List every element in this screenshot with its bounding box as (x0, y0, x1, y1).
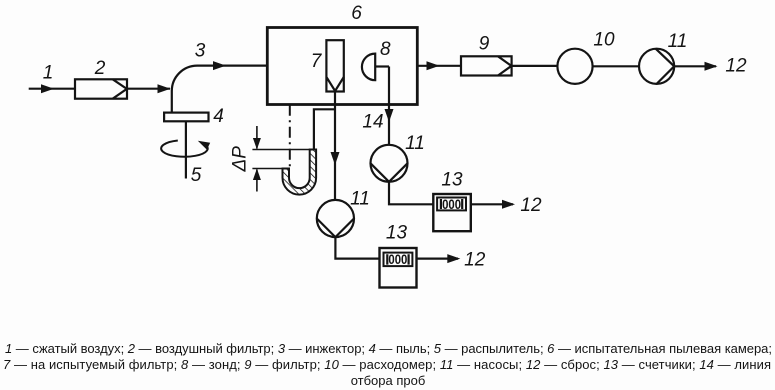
svg-text:1: 1 (43, 63, 54, 84)
arrowhead on line 14 (385, 109, 394, 122)
wire: test filter 7 down to pump (334, 92, 336, 201)
label 12 lower (464, 250, 486, 271)
label 4 (213, 106, 224, 127)
svg-text:отбора проб: отбора проб (351, 373, 426, 388)
pump 11 (top) vanes (656, 49, 674, 84)
sprayer 5 shaft (185, 121, 187, 178)
dP level tick upper (252, 149, 309, 151)
svg-text:1 — сжатый воздух; 2 — воздушн: 1 — сжатый воздух; 2 — воздушный фильтр;… (5, 341, 772, 356)
wire: left pump to counter 13 (335, 237, 379, 259)
svg-text:3: 3 (195, 41, 206, 62)
pump 11 (top) circle (639, 49, 674, 84)
dust plate 4 (164, 113, 208, 122)
filter 9 body (461, 56, 512, 75)
air filter 2 body (75, 79, 127, 98)
svg-text:5: 5 (191, 165, 202, 186)
counter digits upper (442, 197, 461, 212)
label 1 (43, 63, 54, 84)
caption line 2 (3, 357, 771, 372)
wire: chamber outlet to filter 9 (417, 65, 461, 67)
svg-text:10: 10 (593, 30, 615, 51)
label 13 lower (386, 223, 408, 244)
svg-text:11: 11 (350, 189, 370, 210)
flowmeter 10 (557, 49, 592, 84)
wire: flowmeter 10 to pump 11 (593, 65, 639, 67)
svg-text:7: 7 (311, 51, 323, 72)
dP dimension arrow lower (253, 169, 261, 192)
label 11 top (668, 31, 688, 52)
pump 11 (right lower) vanes (371, 163, 408, 182)
svg-text:2: 2 (94, 58, 106, 79)
label 14 (362, 112, 383, 133)
label 13 upper (441, 170, 463, 191)
counter 13 (upper) side bars (441, 199, 462, 209)
probe 8 half-disc (362, 54, 375, 81)
svg-text:13: 13 (386, 223, 408, 244)
wire: filter 2 to injector (127, 88, 170, 90)
U-tube manometer liquid (hatched) (283, 150, 317, 195)
label 11 left lower (350, 189, 370, 210)
wire: right pump to counter 13 upper (389, 182, 433, 205)
arrowhead on filter 7 line (331, 152, 340, 165)
svg-text:11: 11 (405, 133, 425, 154)
dP dimension arrow upper (253, 126, 261, 150)
counter 13 (upper) window (437, 198, 466, 211)
dP level tick lower (252, 168, 282, 170)
svg-text:ΔP: ΔP (230, 146, 251, 173)
dust test chamber 6 (267, 28, 417, 105)
manometer right-arm connection to line 7 (314, 109, 335, 149)
label 12 middle (520, 195, 542, 216)
counter 13 (lower) window (384, 253, 413, 267)
counter 13 (upper) body (433, 194, 471, 231)
caption line 3 (351, 373, 426, 388)
label 11 right lower (405, 133, 425, 154)
injector elbow 3 riser and bend (172, 66, 267, 113)
arrowhead on line 3 into chamber (213, 61, 226, 70)
counter 13 (lower) side bars (387, 254, 408, 264)
svg-text:12: 12 (464, 250, 486, 271)
label 12 top (725, 56, 747, 77)
test filter 7 funnel (326, 77, 343, 91)
svg-text:000: 000 (388, 252, 407, 267)
label dP (230, 146, 251, 173)
wire: pump 11 to discharge 12 (674, 65, 716, 67)
svg-text:8: 8 (380, 39, 391, 60)
label 9 (479, 34, 490, 55)
wire: lower counter to discharge 12 (417, 258, 459, 260)
counter 13 (lower) body (380, 248, 417, 288)
pump 11 (left lower) vanes (317, 219, 354, 238)
label 5 (191, 165, 202, 186)
label 10 (593, 30, 615, 51)
svg-text:7 — на испытуемый фильтр; 8 —: 7 — на испытуемый фильтр; 8 — зонд; 9 — … (3, 357, 771, 372)
test filter 7 body (326, 40, 343, 91)
svg-text:12: 12 (725, 56, 747, 77)
arrowhead discharge 12 (lower) (447, 254, 460, 263)
arrowhead at injector inlet (158, 84, 171, 93)
pump 11 (right lower) circle (371, 145, 408, 182)
air filter 2 chevron (113, 79, 127, 98)
label 8 (380, 39, 391, 60)
svg-text:12: 12 (520, 195, 542, 216)
svg-text:000: 000 (442, 197, 461, 212)
caption line 1 (5, 341, 772, 356)
dashed pressure tap from chamber to manometer (289, 105, 291, 168)
wire: compressed air inlet line 1 (29, 88, 75, 90)
arrowhead on chamber outlet (427, 61, 440, 70)
arrowhead discharge 12 (middle) (502, 200, 515, 209)
sampling line 14 wire (388, 67, 390, 145)
pump 11 (left lower) circle (317, 200, 354, 237)
wire: filter 9 to flowmeter 10 (512, 65, 558, 67)
sprayer 5 rotation arrowhead (198, 141, 210, 150)
filter 9 chevron (498, 56, 511, 75)
arrowhead discharge 12 (top) (705, 62, 718, 71)
counter digits lower (388, 252, 407, 267)
arrowhead on inlet line 1 (41, 84, 54, 93)
sprayer 5 rotation arc (161, 141, 208, 157)
svg-text:6: 6 (351, 3, 362, 24)
svg-text:14: 14 (362, 112, 383, 133)
wire: probe 8 to sampling line 14 (375, 65, 389, 67)
svg-text:11: 11 (668, 31, 688, 52)
label 7 (311, 51, 323, 72)
svg-text:13: 13 (441, 170, 463, 191)
svg-text:4: 4 (213, 106, 224, 127)
wire: upper counter to discharge 12 (471, 203, 513, 205)
label 6 (351, 3, 362, 24)
label 2 (94, 58, 106, 79)
svg-text:9: 9 (479, 34, 490, 55)
label 3 (195, 41, 206, 62)
